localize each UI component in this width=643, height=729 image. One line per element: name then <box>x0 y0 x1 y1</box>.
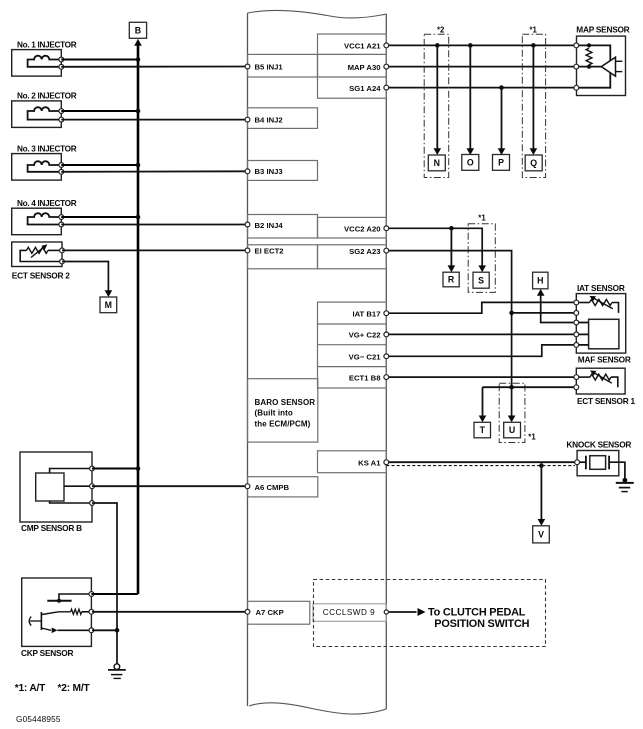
svg-text:*1: A/T: *1: A/T <box>15 683 46 694</box>
svg-text:V: V <box>538 529 544 539</box>
svg-text:ECT SENSOR 1: ECT SENSOR 1 <box>577 396 635 406</box>
svg-text:G05448955: G05448955 <box>16 715 61 724</box>
svg-text:MAF SENSOR: MAF SENSOR <box>578 354 631 364</box>
svg-text:P: P <box>498 158 504 168</box>
svg-text:IAT B17: IAT B17 <box>352 309 380 318</box>
svg-text:*1: *1 <box>530 25 538 34</box>
svg-text:No. 1 INJECTOR: No. 1 INJECTOR <box>17 40 77 49</box>
svg-text:POSITION SWITCH: POSITION SWITCH <box>434 618 529 630</box>
svg-text:*1: *1 <box>528 432 536 441</box>
svg-text:*2: M/T: *2: M/T <box>58 683 91 694</box>
svg-text:A6 CMPB: A6 CMPB <box>255 483 290 492</box>
svg-text:CMP SENSOR B: CMP SENSOR B <box>21 523 82 533</box>
svg-text:ECT1 B8: ECT1 B8 <box>349 373 381 382</box>
svg-text:A7 CKP: A7 CKP <box>256 608 284 617</box>
svg-text:EI ECT2: EI ECT2 <box>255 247 284 256</box>
svg-text:ECT SENSOR 2: ECT SENSOR 2 <box>12 270 70 280</box>
svg-text:VG− C21: VG− C21 <box>349 352 382 361</box>
svg-text:CKP SENSOR: CKP SENSOR <box>21 648 73 658</box>
svg-text:BARO SENSOR: BARO SENSOR <box>255 398 316 407</box>
svg-text:MAP SENSOR: MAP SENSOR <box>576 25 629 35</box>
svg-text:KS A1: KS A1 <box>358 458 381 467</box>
svg-text:T: T <box>480 425 486 435</box>
svg-text:O: O <box>467 158 474 168</box>
svg-text:B4 INJ2: B4 INJ2 <box>255 116 283 125</box>
svg-text:KNOCK SENSOR: KNOCK SENSOR <box>566 440 631 450</box>
svg-text:VG+ C22: VG+ C22 <box>349 331 381 340</box>
svg-text:No. 3 INJECTOR: No. 3 INJECTOR <box>17 144 77 153</box>
svg-text:B5 INJ1: B5 INJ1 <box>255 63 284 72</box>
svg-text:No. 4 INJECTOR: No. 4 INJECTOR <box>17 199 77 208</box>
svg-text:B2 INJ4: B2 INJ4 <box>255 221 284 230</box>
svg-text:M: M <box>105 300 112 310</box>
svg-text:To CLUTCH PEDAL: To CLUTCH PEDAL <box>428 606 526 618</box>
svg-text:H: H <box>537 276 543 286</box>
svg-text:IAT SENSOR: IAT SENSOR <box>577 283 625 293</box>
svg-text:N: N <box>434 158 440 168</box>
svg-text:R: R <box>448 275 455 285</box>
svg-text:No. 2 INJECTOR: No. 2 INJECTOR <box>17 92 77 101</box>
svg-text:S: S <box>478 275 484 285</box>
svg-text:SG1 A24: SG1 A24 <box>349 84 381 93</box>
svg-text:U: U <box>509 425 515 435</box>
svg-text:(Built into: (Built into <box>255 409 293 418</box>
svg-text:MAP A30: MAP A30 <box>348 63 381 72</box>
svg-text:Q: Q <box>530 158 537 168</box>
svg-text:VCC2 A20: VCC2 A20 <box>344 224 380 233</box>
svg-text:the ECM/PCM): the ECM/PCM) <box>255 419 311 428</box>
svg-text:CCCLSWD 9: CCCLSWD 9 <box>323 608 375 617</box>
svg-text:SG2 A23: SG2 A23 <box>349 247 380 256</box>
svg-text:B3 INJ3: B3 INJ3 <box>255 167 283 176</box>
svg-text:*2: *2 <box>437 25 445 34</box>
svg-text:VCC1 A21: VCC1 A21 <box>344 42 381 51</box>
svg-text:B: B <box>135 25 141 35</box>
svg-text:*1: *1 <box>478 214 486 223</box>
